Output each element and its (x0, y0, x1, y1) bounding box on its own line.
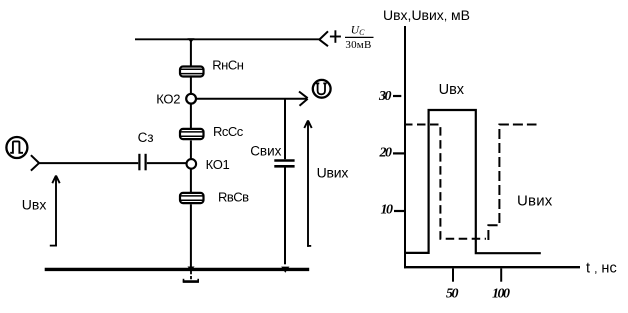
svg-text:20: 20 (379, 146, 393, 161)
svg-text:КО2: КО2 (156, 92, 180, 107)
svg-text:UC: UC (351, 25, 365, 37)
svg-text:RнCн: RнCн (212, 58, 243, 73)
svg-text:30мВ: 30мВ (345, 39, 371, 51)
svg-text:Uвих: Uвих (517, 193, 553, 210)
svg-text:Свих: Свих (250, 144, 281, 159)
svg-text:10: 10 (381, 203, 394, 218)
svg-text:RcCc: RcCc (213, 124, 244, 139)
svg-text:RвCв: RвCв (218, 189, 249, 204)
svg-text:Uвих: Uвих (317, 164, 349, 180)
svg-text:Uвх: Uвх (22, 197, 47, 213)
svg-text:Uвх: Uвх (439, 82, 465, 98)
svg-text:Uвх,Uвих, мВ: Uвх,Uвих, мВ (383, 7, 470, 23)
svg-text:30: 30 (378, 89, 392, 104)
svg-text:КО1: КО1 (206, 157, 230, 172)
svg-text:50: 50 (446, 287, 459, 302)
svg-text:Cз: Cз (138, 130, 154, 145)
svg-text:t , нс: t , нс (586, 260, 617, 276)
svg-text:100: 100 (492, 287, 510, 302)
